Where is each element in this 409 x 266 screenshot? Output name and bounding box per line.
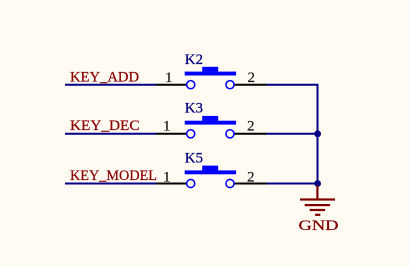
svg-text:1: 1 (165, 70, 173, 86)
svg-text:K5: K5 (185, 151, 203, 167)
svg-text:K2: K2 (185, 52, 203, 68)
svg-text:1: 1 (163, 119, 171, 135)
svg-text:2: 2 (247, 169, 255, 185)
svg-text:1: 1 (163, 169, 171, 185)
svg-text:GND: GND (299, 218, 339, 234)
svg-text:K3: K3 (185, 101, 203, 117)
svg-text:2: 2 (248, 70, 256, 86)
svg-text:2: 2 (247, 119, 255, 135)
svg-text:KEY_ADD: KEY_ADD (70, 69, 139, 85)
svg-text:KEY_DEC: KEY_DEC (70, 118, 140, 134)
svg-text:KEY_MODEL: KEY_MODEL (70, 168, 157, 184)
